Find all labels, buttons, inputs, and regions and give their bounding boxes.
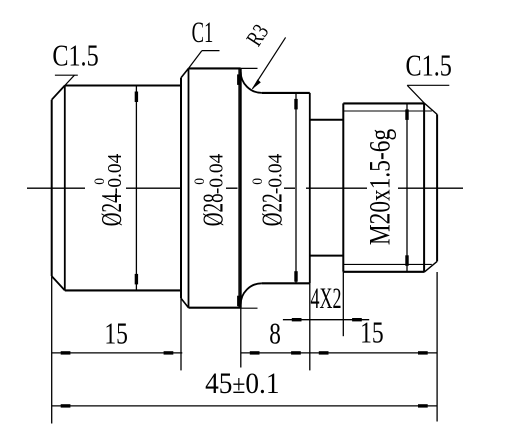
leader C1.5 left xyxy=(55,75,78,85)
shoulder extension line xyxy=(180,298,182,370)
dimension M20 top arrow xyxy=(405,109,408,120)
seg.1 top outline xyxy=(65,84,181,86)
svg-text:4X2: 4X2 xyxy=(311,283,342,316)
svg-text:C1: C1 xyxy=(192,17,214,49)
svg-text:8: 8 xyxy=(269,316,281,350)
thread start extension line xyxy=(342,272,344,336)
groove left wall xyxy=(309,93,311,283)
seg.2 bottom outline xyxy=(189,307,241,309)
leader R3 xyxy=(252,37,285,89)
seg.2 bottom stub xyxy=(241,307,258,309)
seg.3 top outline xyxy=(262,92,310,94)
dimension 45 arrows xyxy=(61,404,428,407)
dimension 4X2 line xyxy=(283,319,369,321)
dimension d28 bottom arrow xyxy=(237,296,240,307)
svg-text:0: 0 xyxy=(91,178,108,185)
svg-text:15: 15 xyxy=(360,314,384,349)
right extension line xyxy=(436,272,438,422)
svg-text:Ø24: Ø24 xyxy=(97,193,127,226)
centerline xyxy=(27,187,463,189)
svg-text:0: 0 xyxy=(192,178,209,185)
thread crest bottom xyxy=(343,271,424,273)
seg.2 right edge xyxy=(240,68,242,307)
dimension d22 bottom arrow xyxy=(294,271,297,282)
dimension d22 top arrow xyxy=(294,99,297,110)
dimension 8 and 15 right line xyxy=(241,352,437,354)
right end face xyxy=(436,114,438,261)
dimension 15 right arrows xyxy=(319,351,428,354)
fillet R3 top arc xyxy=(241,72,262,93)
bottom-left chamfer C1.5 edge xyxy=(52,276,65,290)
dimension d28 top arrow xyxy=(237,74,240,85)
dimension 8 arrows xyxy=(250,351,301,354)
dimension d28 line xyxy=(238,68,240,307)
thread chamfer start edge xyxy=(423,103,425,271)
dimension d24 top arrow xyxy=(135,92,138,103)
svg-text:15: 15 xyxy=(104,315,128,350)
top chamfer C1 edge xyxy=(181,68,189,77)
dimension 15 left line xyxy=(52,352,183,354)
groove bottom lower line xyxy=(310,255,344,257)
leader C1 xyxy=(189,51,220,69)
thread crest top xyxy=(343,102,424,104)
thread root bottom thin line xyxy=(343,263,432,265)
seg.2 right extension line xyxy=(240,308,242,368)
groove left extension line xyxy=(309,283,311,370)
dimension 4X2 arrows xyxy=(292,318,362,321)
seg.2 top outline xyxy=(189,67,241,69)
thread root top thin line xyxy=(343,110,432,112)
seg.1 bottom outline xyxy=(65,289,181,291)
dimension M20 line xyxy=(406,103,408,271)
dimension d22 line xyxy=(295,93,297,283)
svg-text:M20x1.5-6g: M20x1.5-6g xyxy=(363,129,396,245)
dimension d24 bottom arrow xyxy=(135,274,138,285)
svg-text:C1.5: C1.5 xyxy=(406,49,452,84)
chamfer boundary line of seg.2 xyxy=(188,68,190,307)
dimension M20 bottom arrow xyxy=(405,255,408,265)
left extension line xyxy=(51,276,53,423)
svg-text:Ø28: Ø28 xyxy=(199,193,229,226)
svg-text:-0.04: -0.04 xyxy=(205,154,227,195)
svg-text:C1.5: C1.5 xyxy=(52,39,98,74)
svg-text:45±0.1: 45±0.1 xyxy=(205,367,279,400)
leader R3 arrowhead xyxy=(252,79,261,89)
svg-text:Ø22: Ø22 xyxy=(258,193,288,226)
dimension 45 line xyxy=(52,405,437,407)
seg.2 top stub xyxy=(241,67,258,69)
bottom chamfer edge of seg.2 xyxy=(181,298,189,308)
svg-text:0: 0 xyxy=(249,178,266,185)
svg-text:-0.04: -0.04 xyxy=(104,154,126,195)
leader C1.5 right xyxy=(407,85,449,103)
seg.3 bottom outline xyxy=(262,282,310,284)
top-right chamfer C1.5 edge xyxy=(425,103,438,114)
left end face xyxy=(51,100,53,276)
chamfer boundary line of seg.1 xyxy=(64,86,66,291)
dimension d24 line xyxy=(135,86,137,291)
fillet R3 bottom arc xyxy=(241,283,262,304)
svg-text:-0.04: -0.04 xyxy=(264,154,286,195)
thread start edge xyxy=(342,103,344,271)
shoulder face seg.1/seg.2 xyxy=(180,78,182,298)
groove bottom upper line xyxy=(310,119,344,121)
top-left chamfer C1.5 edge xyxy=(52,86,65,100)
dimension 15 left arrows xyxy=(61,351,174,354)
bottom-right chamfer C1.5 edge xyxy=(425,261,438,271)
